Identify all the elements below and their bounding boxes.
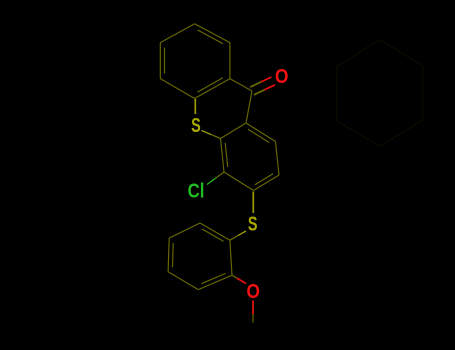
wire O2 to methyl CH3 xyxy=(252,301,254,315)
double bond C9=O line 1 xyxy=(254,90,265,95)
double bond C9=O line 2 xyxy=(250,82,261,87)
benzene ring R2 (central) xyxy=(221,123,280,191)
wire ring R1 C1 to S1 xyxy=(194,99,196,114)
wire lower ring to O2 xyxy=(232,275,237,278)
svg-text:Cl: Cl xyxy=(188,181,205,203)
benzene ring R1 (top-left phenyl) xyxy=(160,24,230,99)
wire S1 to central ring xyxy=(202,131,212,135)
wire central ring to S2 xyxy=(252,192,254,214)
faint phantom hexagon (right) xyxy=(337,40,423,147)
svg-text:S: S xyxy=(191,115,201,137)
wire central ring to Cl xyxy=(216,172,225,178)
wire C9 to ring R1 xyxy=(230,79,252,91)
wire S2 to lower ring xyxy=(238,231,246,236)
svg-text:O: O xyxy=(275,66,288,88)
wire C9 to central ring top xyxy=(246,91,252,123)
svg-text:O: O xyxy=(247,281,260,303)
svg-text:S: S xyxy=(248,214,258,236)
benzene ring R3 (lower-left, 2-methoxyphenyl) xyxy=(168,223,232,290)
